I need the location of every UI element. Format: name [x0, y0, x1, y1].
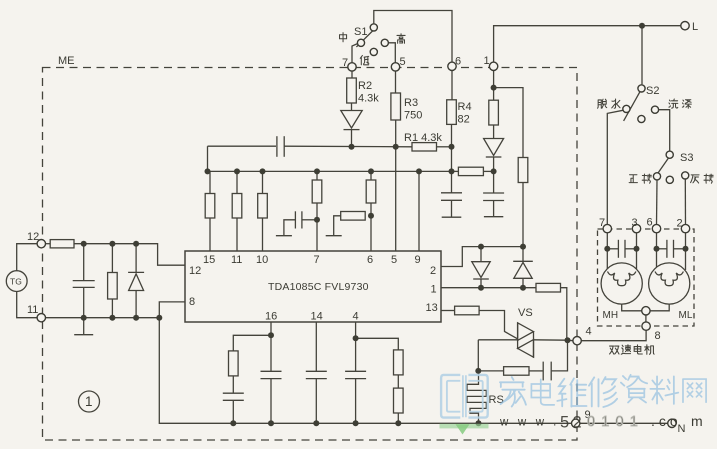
- label dual-speed motor: [610, 346, 619, 354]
- resistor pin6 branch: [366, 180, 376, 203]
- wire: cap84 stems: [83, 244, 85, 281]
- resistor TG filter vertical: [108, 273, 118, 300]
- ground bar node493: [484, 216, 503, 218]
- svg-text:2: 2: [573, 414, 582, 432]
- wire: terminal 6 to R4: [451, 71, 454, 100]
- resistor pin15: [205, 194, 215, 219]
- wire: TG to terminal 11: [17, 292, 37, 318]
- wire: motor col2: [685, 233, 687, 270]
- wire: pin4 drop: [355, 322, 357, 338]
- wire: snubber resistor to cap: [529, 370, 543, 372]
- svg-text:R4: R4: [458, 101, 472, 113]
- wire: D4 stems: [522, 247, 524, 262]
- S3 contact forward: [653, 173, 660, 180]
- resistor pin6 to ground horizontal: [341, 212, 366, 221]
- wire: pin4 right branch: [356, 338, 399, 350]
- capacitor pin16 chain: [223, 392, 244, 394]
- junction R3/R1/pin5: [393, 144, 399, 150]
- junction tacho top/zener: [133, 241, 139, 247]
- svg-text:S3: S3: [680, 152, 693, 164]
- terminal 4 (motor feed): [573, 337, 581, 345]
- resistor pin7 branch: [312, 180, 322, 203]
- wire: triac MT1 left: [478, 339, 517, 341]
- wire: split dot down to R5: [493, 88, 495, 101]
- svg-text:7: 7: [599, 217, 605, 229]
- wire: drop to ground bus: [159, 318, 233, 424]
- junction tacho bottom/zener: [133, 315, 139, 321]
- wire: terminal 9 to N: [580, 422, 668, 424]
- wire: S1 mid contact to terminal 7: [352, 44, 358, 63]
- svg-text:82: 82: [458, 114, 470, 126]
- svg-text:.co: .co: [651, 413, 682, 429]
- diode D4 (pin1-pin2 up): [513, 260, 533, 262]
- switch S2 pivot: [638, 85, 645, 92]
- wire: S2 wash contact to S3: [659, 110, 670, 151]
- svg-text:6: 6: [647, 217, 653, 229]
- wire: MT1 down to snubber node: [477, 340, 479, 371]
- node dots: [81, 23, 689, 427]
- svg-text:R2: R2: [358, 80, 372, 92]
- label reverse (S3): [691, 175, 699, 183]
- junction snubber/RS node: [475, 368, 481, 374]
- junction R1/R4: [449, 144, 455, 150]
- svg-text:5: 5: [400, 56, 406, 68]
- S2 contact center: [638, 115, 645, 122]
- resistor pin13 gate: [455, 306, 480, 315]
- ME dashed box: [43, 68, 578, 441]
- junction bus/cap451: [449, 168, 455, 174]
- label forward (S3): [629, 175, 637, 183]
- wire: R6 to IC pin 12: [74, 244, 185, 266]
- svg-text:S2: S2: [646, 85, 659, 97]
- svg-text:ML: ML: [679, 310, 693, 321]
- capacitor series row146: [276, 136, 278, 157]
- label wash (S2): [669, 99, 678, 108]
- svg-text:750: 750: [404, 110, 422, 122]
- wire: R5 to D2: [493, 125, 495, 138]
- junction bus/pin10 resistor: [260, 168, 266, 174]
- junction pin6/resistor: [368, 213, 374, 219]
- watermark: www.520101.com row: [499, 413, 703, 432]
- resistor R6 (tacho series): [50, 240, 74, 248]
- wire: L line from terminal 1 to L: [494, 26, 685, 63]
- motor ML winding: [649, 263, 690, 304]
- svg-text:14: 14: [311, 311, 323, 323]
- junction bus/pin7 resistor: [314, 168, 320, 174]
- junction gndbus/pin16 chain: [230, 420, 236, 426]
- resistor pin1 series: [536, 283, 561, 292]
- wire: IC pin13 to resistor: [441, 310, 455, 312]
- wire: R7 stems: [111, 244, 113, 273]
- capacitor pin4: [345, 370, 366, 372]
- svg-text:8: 8: [189, 296, 195, 308]
- label high (S1): [397, 34, 405, 44]
- S3 contact center: [666, 176, 673, 183]
- svg-text:6: 6: [455, 56, 461, 68]
- svg-text:11: 11: [27, 304, 38, 316]
- wire: S3 rev contact to motor terminal 2: [684, 179, 686, 225]
- svg-text:www.: www.: [499, 417, 566, 429]
- resistor pin4 chain upper: [394, 350, 404, 375]
- svg-text:MH: MH: [603, 310, 619, 321]
- S1 contact low: [370, 48, 377, 55]
- wire: terminal 7 to R2: [351, 71, 353, 78]
- svg-text:TDA1085C FVL9730: TDA1085C FVL9730: [268, 281, 369, 293]
- svg-text:5: 5: [560, 414, 569, 432]
- junction pin16 node: [268, 332, 274, 338]
- switch S2 arm: [624, 92, 640, 121]
- resistor terminal1-branch vertical: [518, 158, 528, 183]
- junction gndbus/pin16 cap: [268, 420, 274, 426]
- diode D1 under R2: [341, 111, 362, 129]
- motor terminal 7: [603, 224, 611, 232]
- junction gndbus/pin4 cap: [353, 420, 359, 426]
- terminal 9 (neutral): [572, 419, 580, 427]
- wire: motor cap1 taps: [607, 248, 618, 250]
- svg-text:1: 1: [85, 394, 93, 409]
- motor MH winding: [601, 263, 642, 304]
- wire: S2 spin contact to motor terminal 7: [607, 110, 623, 224]
- label low (S1): [360, 55, 369, 64]
- wire: split dot to right resistor branch: [494, 88, 523, 158]
- svg-text:10: 10: [256, 254, 268, 266]
- wire: term4 circle to motor term8: [581, 330, 646, 341]
- junction tacho top/cap: [81, 241, 87, 247]
- svg-text:5: 5: [391, 254, 397, 266]
- svg-text:4.3k: 4.3k: [358, 93, 379, 105]
- resistor R5 below terminal 1: [489, 100, 499, 125]
- junction tacho bottom/cap: [81, 315, 87, 321]
- junction motor3/cap: [634, 246, 640, 252]
- svg-text:12: 12: [189, 265, 201, 277]
- junction motor2/cap: [683, 246, 689, 252]
- wire: pin11 column: [236, 171, 238, 193]
- wire: pin14 cap stems: [315, 322, 317, 371]
- junction terminal1 branch: [491, 85, 497, 91]
- wire: S1 high contact to terminal 5: [388, 43, 395, 63]
- junction pin8/tacho bus: [156, 315, 162, 321]
- svg-text:1: 1: [431, 284, 437, 296]
- svg-text:4: 4: [586, 326, 592, 338]
- wire: common to terminal 8: [645, 315, 647, 322]
- wire: D2 to bus node: [493, 158, 495, 172]
- wire: cap451 to ground: [451, 171, 453, 192]
- wire: pin7 cap to ground: [302, 219, 317, 221]
- wire: R3 to node row146 and down to IC pin 5: [395, 120, 397, 251]
- capacitor pin7 branch to gnd: [294, 211, 296, 228]
- svg-text:16: 16: [265, 311, 277, 323]
- zener diode TG clamp: [128, 271, 144, 273]
- circled 1 symbol: [79, 391, 100, 412]
- svg-text:9: 9: [415, 254, 421, 266]
- resistor pin4 chain lower: [394, 388, 404, 413]
- diode D2 under R5: [484, 139, 504, 156]
- label spin (S2): [598, 99, 607, 108]
- tachogenerator TG: [6, 271, 27, 292]
- terminal N: [668, 419, 676, 427]
- svg-text:L: L: [692, 21, 698, 33]
- junction pin4 node: [353, 335, 359, 341]
- wire: right resistor down to diode top rail: [522, 183, 524, 247]
- svg-text:13: 13: [426, 302, 438, 314]
- motor common node: [642, 307, 650, 315]
- wire: terminal 11 bus: [46, 317, 160, 319]
- junction pin7/cap: [314, 217, 320, 223]
- wire: pin6 column: [370, 171, 372, 180]
- wire: corner drop to bus: [207, 146, 209, 171]
- motor terminal 2: [681, 224, 689, 232]
- capacitor pin16: [261, 370, 282, 372]
- switch S3 pivot: [666, 151, 673, 158]
- junction pin1 rail/D3: [478, 285, 484, 291]
- capacitor TG filter: [73, 280, 95, 282]
- resistor R4 82: [447, 100, 457, 125]
- junction tacho top/R7: [109, 241, 115, 247]
- S1 contact high: [381, 39, 388, 46]
- capacitor motor ML: [666, 240, 668, 258]
- wire: S2 drop from L line: [641, 26, 643, 85]
- wire: pin1 resistor to terminal4 node: [561, 288, 567, 341]
- junction gndbus/pin14 cap: [313, 420, 319, 426]
- capacitor pin14: [306, 370, 327, 372]
- svg-text:6: 6: [367, 254, 373, 266]
- junction bus left corner: [205, 168, 211, 174]
- wire: pin16 cap stems: [270, 335, 272, 371]
- wire: gnd stem below 84: [83, 318, 85, 335]
- wire: S3 fwd contact to motor terminal 6: [656, 180, 659, 225]
- wire: R10 to bus: [397, 413, 399, 423]
- svg-text:11: 11: [231, 254, 242, 266]
- S2 contact spin: [623, 105, 630, 112]
- junction pin2 rail/D4: [520, 244, 526, 250]
- junction bus/pin11 resistor: [234, 168, 240, 174]
- svg-text:m: m: [691, 413, 703, 429]
- wire: TG to terminal 12: [17, 244, 37, 271]
- resistor bus-to-D2 horizontal: [458, 167, 483, 175]
- capacitor motor MH: [617, 240, 619, 258]
- junction bus/D2/cap493: [491, 168, 497, 174]
- resistor snubber: [504, 367, 529, 376]
- svg-text:TG: TG: [10, 277, 22, 287]
- svg-text:2: 2: [430, 265, 436, 277]
- junction bus/pin9: [416, 168, 422, 174]
- junction motor7/cap: [604, 246, 610, 252]
- capacitor node493 to gnd: [483, 192, 504, 194]
- ground bar pin7 branch: [276, 235, 292, 237]
- wire: pin16 left branch: [233, 335, 271, 351]
- wire: R4 to R1 right node down to bus: [451, 124, 453, 171]
- svg-text:R3: R3: [404, 97, 418, 109]
- watermark: big blue text: [500, 375, 706, 407]
- motor terminal 8: [642, 322, 650, 330]
- resistor R1 4.3k: [412, 143, 437, 151]
- svg-text:S1: S1: [354, 26, 367, 38]
- wire: MH common: [622, 304, 642, 311]
- svg-text:12: 12: [27, 231, 39, 243]
- wire: between R9 R10: [397, 375, 399, 388]
- wire: pin7 column: [316, 171, 318, 180]
- triac VS: [518, 323, 534, 341]
- wire: snubber cap up to node: [552, 340, 568, 371]
- wire: pin9 column: [418, 171, 420, 251]
- switch S1 pivot: [370, 24, 377, 31]
- resistor R3 750: [391, 93, 401, 120]
- junction L-wire/S2: [639, 23, 645, 29]
- svg-text:3: 3: [632, 217, 638, 229]
- ground bar TG: [74, 334, 93, 336]
- wire: motor col7: [606, 233, 608, 269]
- wire: pin15 column: [209, 171, 211, 193]
- wire: D1 to node row146: [351, 130, 353, 147]
- wire: row146 horizontal with series gap for cap: [208, 145, 277, 147]
- wire: snubber node to resistor: [478, 370, 503, 372]
- capacitor node451 to gnd: [441, 192, 462, 194]
- junction bus/pin6 resistor: [368, 168, 374, 174]
- wire: R2 to diode D1: [351, 103, 353, 110]
- junction D1/row146: [349, 144, 355, 150]
- svg-text:7: 7: [342, 57, 348, 69]
- wire: terminal 1 down to split dot: [493, 71, 495, 88]
- terminal L: [681, 22, 689, 30]
- junction gndbus/RS: [476, 420, 482, 426]
- label mid (S1): [340, 33, 347, 42]
- wire: motor cap2 taps: [657, 248, 667, 250]
- terminal 11 (tacho): [37, 314, 45, 322]
- watermark: green band and tick: [440, 424, 489, 435]
- svg-text:R1 4.3k: R1 4.3k: [404, 132, 442, 144]
- svg-text:ME: ME: [58, 55, 75, 67]
- wire: pin10 column: [262, 171, 264, 193]
- wire: triac MT2 to terminal 4: [534, 339, 573, 342]
- terminal 7 (speed select): [348, 63, 356, 71]
- resistor pin11: [232, 194, 242, 219]
- wire: ground bus: [233, 422, 572, 424]
- wire: IC pin16 drop: [270, 322, 272, 335]
- junction motor6/cap: [654, 246, 660, 252]
- wire: pin6 gnd resistor left: [334, 216, 341, 236]
- wire: motor col3: [636, 233, 638, 269]
- switch S3 arm: [658, 158, 668, 173]
- wire: pin4 cap stems: [355, 338, 357, 371]
- junction tacho bottom/R7: [109, 315, 115, 321]
- wire: cap to bus: [232, 400, 234, 423]
- wire: cap493 to ground: [493, 171, 495, 193]
- capacitor snubber: [542, 362, 544, 381]
- motor terminal 3: [632, 224, 640, 232]
- svg-text:1: 1: [484, 55, 490, 67]
- resistor pin16 branch: [229, 351, 239, 376]
- watermark: book logo: [441, 375, 488, 418]
- wire: bus resistor right segment: [483, 170, 493, 172]
- junction pin2 rail/D3: [478, 244, 484, 250]
- ground bar node451: [442, 216, 462, 218]
- svg-text:15: 15: [203, 254, 215, 266]
- svg-text:8: 8: [655, 330, 661, 342]
- wire: ML common: [650, 304, 669, 311]
- wire: zener stems: [135, 244, 137, 273]
- motor terminal 6: [652, 224, 660, 232]
- svg-text:2: 2: [677, 218, 683, 230]
- wire: main bus row171: [208, 170, 452, 172]
- wire: pin13 resistor to triac gate: [479, 311, 517, 339]
- svg-text:4: 4: [353, 311, 359, 323]
- junction gndbus/pin4 chain: [395, 420, 401, 426]
- resistor pin10: [258, 194, 268, 219]
- ground bar pin6 branch: [326, 235, 342, 237]
- wire: IC pin2 to diode top rail: [441, 247, 523, 267]
- terminal 1 (line in): [489, 62, 497, 70]
- S1 contact mid: [357, 39, 364, 46]
- wire: terminal 5 to R3: [395, 71, 397, 93]
- wire: motor col6: [656, 233, 658, 270]
- switch S1 arm: [356, 31, 372, 47]
- S2 contact wash: [651, 106, 658, 113]
- junction triac MT2/terminal4: [565, 337, 571, 343]
- S3 contact reverse: [682, 172, 689, 179]
- svg-text:VS: VS: [518, 307, 533, 319]
- terminal 6: [448, 62, 456, 70]
- wire: IC pin1 rail: [441, 287, 536, 289]
- svg-text:0101: 0101: [587, 414, 644, 430]
- wire: R8 to cap stem: [232, 376, 234, 393]
- svg-text:7: 7: [314, 254, 320, 266]
- resistor R2 4.3k: [347, 78, 357, 103]
- diode D3 (pin2-pin1 down): [472, 262, 490, 278]
- wire: D3 stems: [480, 247, 482, 262]
- wire: S1 common to terminal 6: [374, 11, 452, 63]
- junction pin1 rail/D4: [520, 285, 526, 291]
- op-amp U1 TDA1085C box: [185, 251, 441, 322]
- sense element RS: [467, 372, 486, 423]
- terminal 12 (tacho): [37, 240, 45, 248]
- terminal 5 (speed select): [391, 63, 399, 71]
- wire: terminal 12 to R6: [46, 243, 51, 245]
- motor dashed box: [598, 229, 695, 326]
- wire: IC pin 8 to left down join bus: [159, 302, 185, 318]
